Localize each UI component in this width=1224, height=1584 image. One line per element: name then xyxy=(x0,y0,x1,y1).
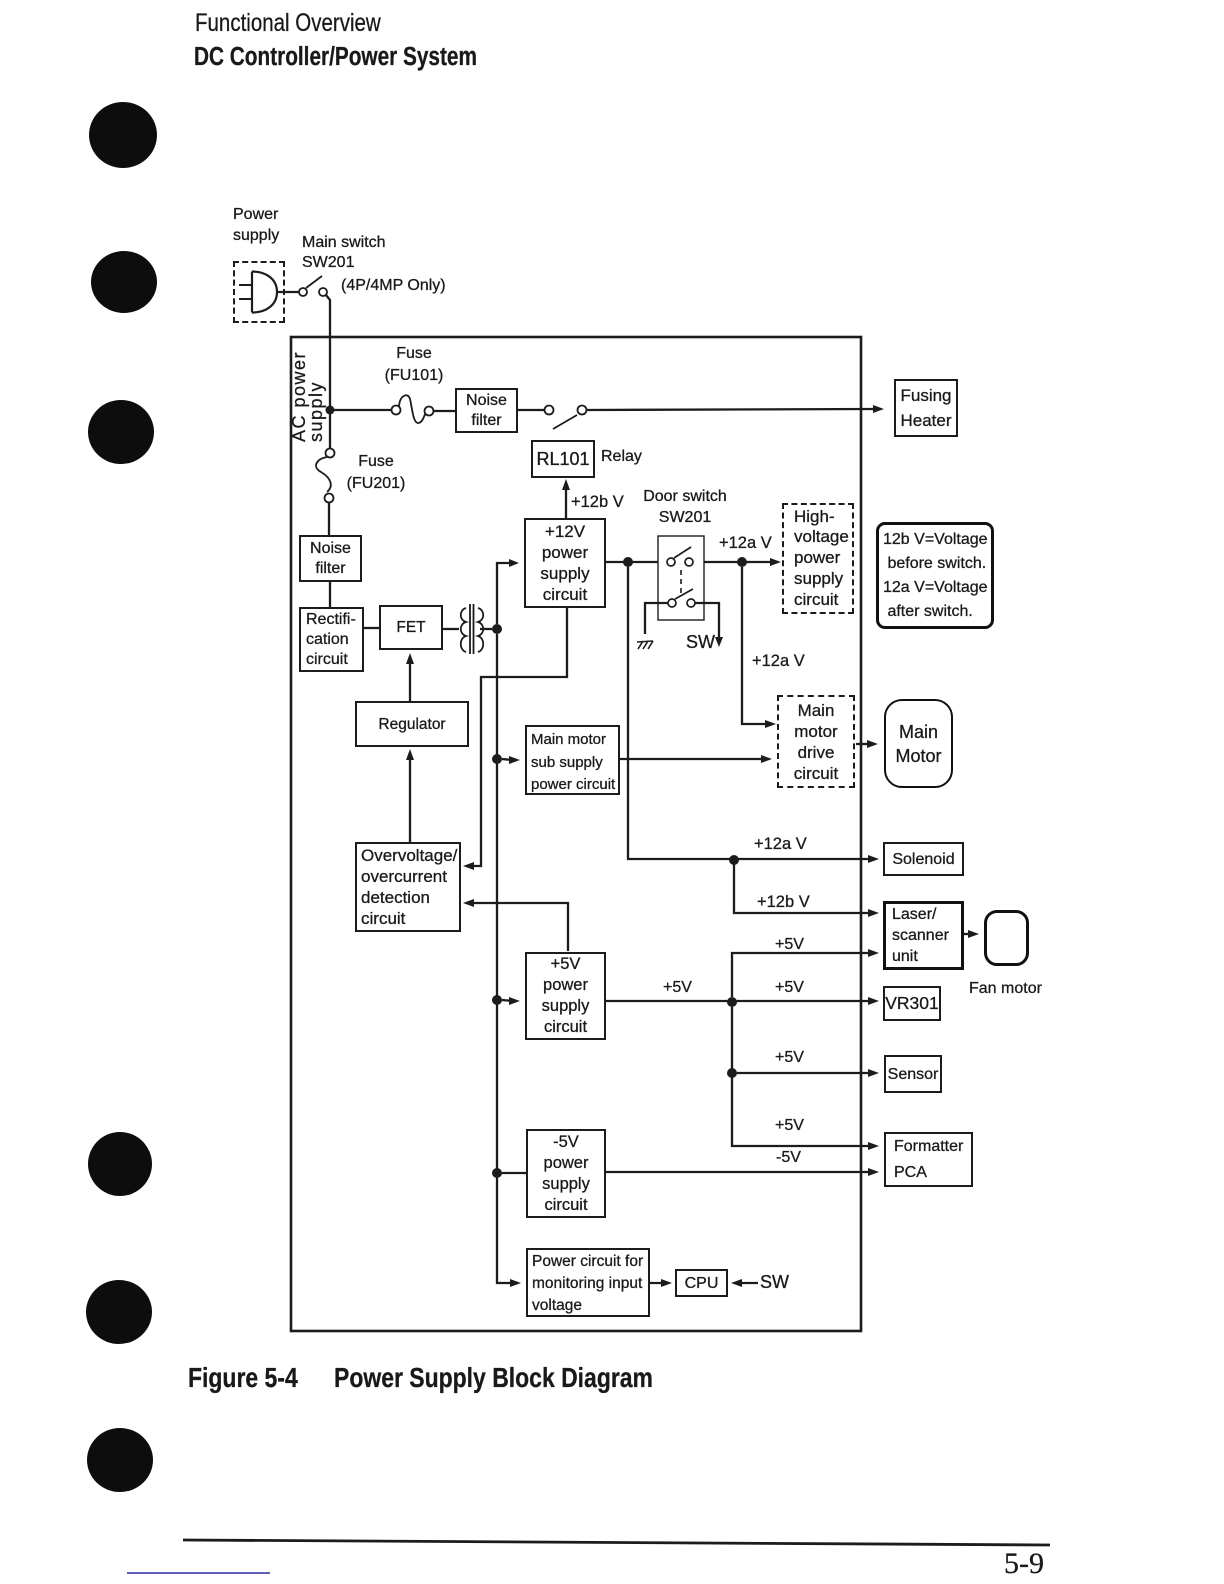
figure caption xyxy=(188,1368,298,1388)
wire +5V to laser/scanner xyxy=(732,953,873,997)
+5V power supply circuit box xyxy=(525,952,606,1040)
wire regulator to FET xyxy=(409,659,411,701)
power circuit for monitoring box xyxy=(526,1248,650,1317)
relay contact switch xyxy=(545,406,587,430)
wire switch down into unit xyxy=(326,295,330,406)
wire laser unit to fan motor xyxy=(964,933,973,935)
VR301 box xyxy=(883,986,941,1021)
wire +12V supply up to relay RL101 xyxy=(565,485,567,518)
+12a V label (solenoid) xyxy=(754,834,807,854)
door switch SW201 box xyxy=(658,536,704,620)
regulator box xyxy=(355,701,469,747)
wire noise filter to relay contacts xyxy=(518,409,544,411)
node: +5V distribution xyxy=(727,997,737,1007)
node: -5V supply tap xyxy=(492,1168,502,1178)
door switch lower contacts xyxy=(668,589,695,607)
relay label xyxy=(601,447,642,467)
sensor box xyxy=(884,1055,942,1093)
wire overvoltage detection to regulator xyxy=(409,755,411,844)
node: +12b branch xyxy=(623,557,633,567)
wire door switch to high-voltage supply xyxy=(704,561,776,563)
-5V label xyxy=(776,1148,801,1168)
node: +12b laser tap xyxy=(729,855,739,865)
footer rule xyxy=(183,1540,1050,1545)
wire +12b to laser/scanner xyxy=(734,864,873,913)
solenoid box xyxy=(883,842,964,876)
AC power supply label (rotated) xyxy=(291,342,329,442)
wire fuse FU201 to noise filter 2 xyxy=(328,503,330,535)
main motor box xyxy=(884,699,953,788)
wire lower contact to SW signal xyxy=(695,603,719,638)
door switch upper contacts xyxy=(667,547,693,566)
feedback wire +12V to overvoltage detection xyxy=(469,608,567,866)
main switch SW201 xyxy=(299,276,327,296)
overvoltage/overcurrent detection box xyxy=(355,842,461,932)
noise filter box 2 xyxy=(299,535,362,582)
+12a V label (door switch) xyxy=(719,533,772,553)
power supply unit outline xyxy=(291,337,861,1331)
main switch label xyxy=(302,233,386,273)
power supply dashed box xyxy=(233,261,285,323)
SW label (CPU) xyxy=(760,1272,789,1292)
wire FET to transformer xyxy=(443,628,459,630)
fusing heater box xyxy=(894,379,958,437)
laser/scanner unit box xyxy=(883,901,964,970)
node: main motor sub supply tap xyxy=(492,754,502,764)
rectification circuit box xyxy=(299,607,364,672)
main motor drive circuit box (dashed) xyxy=(777,695,855,788)
+12a V label (drive) xyxy=(752,651,805,671)
SW label xyxy=(686,632,715,652)
wire +5V down to formatter xyxy=(732,1007,873,1146)
wire sub supply to main motor drive xyxy=(619,758,766,760)
door switch link (dashed) xyxy=(680,570,682,595)
-5V power supply circuit box xyxy=(526,1129,606,1218)
fan motor box xyxy=(984,910,1029,966)
4P/4MP note xyxy=(341,276,446,296)
+5V labels xyxy=(663,978,692,998)
noise filter box 1 xyxy=(455,388,518,433)
wire +12b rail down to solenoid xyxy=(628,567,873,859)
power supply label xyxy=(233,204,279,246)
wire rectification to FET xyxy=(364,627,379,629)
12a/12b legend note xyxy=(876,522,994,629)
AC plug symbol (power supply) xyxy=(239,272,277,313)
footer blue link line xyxy=(127,1572,270,1574)
wire junction to fuse FU101 xyxy=(334,409,392,411)
secondary rail wire down xyxy=(497,634,515,1283)
node: AC input junction xyxy=(326,406,335,415)
fuse FU101 label xyxy=(384,343,444,387)
high-voltage power supply circuit box (dashed) xyxy=(782,503,854,614)
wire SW to CPU xyxy=(737,1282,758,1284)
node: secondary rail xyxy=(492,624,502,634)
page header xyxy=(195,13,381,33)
fuse FU201 xyxy=(316,449,334,503)
wire drive circuit to main motor xyxy=(856,743,872,745)
node: sensor tap xyxy=(727,1068,737,1078)
wire transformer to node xyxy=(480,628,492,630)
wire junction down to fuse FU201 xyxy=(329,414,331,449)
wire noise filter 2 to rectification circuit xyxy=(329,582,331,607)
fan motor label xyxy=(969,979,1042,999)
wire to fusing heater xyxy=(587,409,874,410)
wire -5V to formatter PCA xyxy=(606,1171,873,1173)
door switch label xyxy=(643,486,727,528)
relay RL101 box xyxy=(531,440,595,478)
page number xyxy=(1004,1554,1044,1574)
feedback wire +5V to overvoltage detection xyxy=(469,903,568,951)
transformer T1 xyxy=(461,604,484,654)
node: +5V supply tap xyxy=(492,995,502,1005)
wire +12a down to main motor drive xyxy=(742,567,770,724)
wire +5V output to VR301 xyxy=(606,1000,873,1002)
fuse FU201 label xyxy=(346,451,406,495)
formatter PCA box xyxy=(884,1132,973,1187)
wire plug to main switch xyxy=(277,291,299,293)
wire +5V to sensor xyxy=(737,1072,873,1074)
wire node up to +12V supply xyxy=(497,563,513,624)
node: +12a branch xyxy=(737,557,747,567)
ground xyxy=(637,641,653,649)
+12b V label (laser) xyxy=(757,892,810,912)
CPU box xyxy=(675,1269,728,1297)
+12V power supply circuit box xyxy=(524,518,606,608)
+12b V label xyxy=(571,492,624,512)
punch holes column xyxy=(86,102,157,1492)
wire monitoring circuit to CPU xyxy=(649,1282,666,1284)
fuse FU101 xyxy=(392,395,434,423)
wire +12V output to door switch xyxy=(606,561,658,563)
wire lower contact to ground xyxy=(645,603,668,634)
main motor sub supply power circuit box xyxy=(525,725,620,795)
wire fuse to noise filter xyxy=(433,410,455,412)
FET box xyxy=(379,605,443,650)
